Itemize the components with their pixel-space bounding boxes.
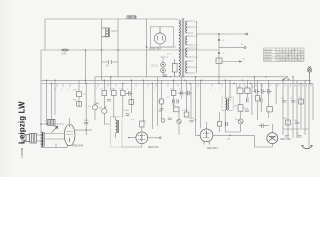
svg-text:4: 4 <box>277 52 278 54</box>
svg-text:1,2: 1,2 <box>301 60 304 62</box>
wire tube4 grid <box>266 125 269 127</box>
capacitor C23 <box>285 136 289 138</box>
svg-text:0,1: 0,1 <box>296 133 300 135</box>
table cell text <box>264 48 304 62</box>
tick row below rails <box>57 84 311 88</box>
transformer T1 primary winding <box>179 20 181 76</box>
ground symbol <box>302 146 313 149</box>
wire speaker links <box>36 135 41 141</box>
wire pot2 down <box>104 114 110 124</box>
resistor R10 <box>237 88 243 94</box>
svg-text:RGN354: RGN354 <box>264 60 271 62</box>
capacitor C30 <box>246 98 248 103</box>
switch S1 <box>216 58 222 64</box>
svg-text:7: 7 <box>196 88 197 90</box>
resistor R9 <box>184 112 189 117</box>
wire rectifier heater drop <box>146 19 148 77</box>
svg-text:15: 15 <box>292 52 294 54</box>
stage3 junction dots <box>181 92 197 120</box>
coil L2 <box>102 28 110 38</box>
wire left column x161.5 <box>161 80 163 117</box>
svg-text:35: 35 <box>277 55 279 57</box>
wire grid drop x85 <box>85 50 87 84</box>
output transformer box <box>30 133 37 143</box>
node stage2 c <box>110 76 112 78</box>
wire mains drop <box>218 34 220 63</box>
wire drop x186.5 <box>186 80 188 112</box>
svg-text:0,5: 0,5 <box>119 89 123 91</box>
labels transformer taps <box>194 21 198 75</box>
wire switch out with arrow <box>222 61 239 63</box>
svg-text:d: d <box>308 88 309 90</box>
wire vertical x101.5 <box>101 19 103 80</box>
svg-text:5000: 5000 <box>124 110 130 112</box>
node B plus <box>218 33 220 35</box>
wire right link <box>283 128 309 130</box>
capacitor C12 row <box>173 99 179 103</box>
svg-text:8: 8 <box>210 88 211 90</box>
pot P3 <box>161 117 165 122</box>
wire drop x55 <box>54 80 56 115</box>
svg-text:b: b <box>243 58 245 61</box>
wire tube4 bottom <box>254 135 272 147</box>
svg-text:RES 164: RES 164 <box>148 145 159 149</box>
svg-text:80-17: 80-17 <box>112 30 119 33</box>
pilot lamp <box>307 66 311 83</box>
wire drop x239.9 <box>239 84 241 105</box>
wire filter links <box>160 57 166 77</box>
capacitor C21 <box>291 101 295 103</box>
wire tube4 top lead <box>271 124 273 133</box>
svg-text:100: 100 <box>73 90 77 92</box>
speaker coil L1 <box>41 132 44 148</box>
node antenna <box>40 123 42 125</box>
resistor R1 <box>77 92 82 97</box>
svg-text:5000: 5000 <box>189 118 195 120</box>
wire drop x225.4 <box>224 80 226 97</box>
svg-text:60: 60 <box>280 60 282 62</box>
rectifier tube V5 RGN354 <box>154 27 165 44</box>
capacitor C32 tube4 grid <box>259 124 267 128</box>
svg-text:95: 95 <box>292 60 294 62</box>
capacitor C8 <box>126 114 130 116</box>
svg-text:35: 35 <box>289 55 291 57</box>
wire drop x157.6 <box>157 77 159 126</box>
wire trimmer leads <box>240 111 242 132</box>
svg-text:0,1: 0,1 <box>100 89 104 91</box>
stage2 resistor R6 <box>129 100 134 105</box>
wire drop x219 lower <box>218 63 220 84</box>
svg-text:a: a <box>44 120 46 122</box>
wire tube3 plate link <box>213 134 254 136</box>
wire drop x219.5b <box>219 112 221 132</box>
table voltages <box>264 48 305 62</box>
resistor R17 <box>160 99 164 104</box>
wire drop x305 <box>304 80 306 135</box>
svg-text:0,1: 0,1 <box>131 119 135 121</box>
node stage4 b <box>254 76 256 78</box>
svg-text:1: 1 <box>96 88 97 90</box>
svg-text:2: 2 <box>262 87 264 89</box>
svg-text:60: 60 <box>301 52 303 54</box>
wire rectifier anode link <box>160 44 176 47</box>
node stage2 b <box>131 80 133 82</box>
resistor R16 above tube2 <box>140 121 144 127</box>
transformer T1 core <box>182 18 184 78</box>
brand Lorenz <box>20 147 24 157</box>
capacitor C31 <box>260 98 262 102</box>
svg-text:mA: mA <box>293 48 297 51</box>
capacitor C22 <box>295 122 299 124</box>
capacitor C26 <box>185 91 192 96</box>
svg-text:REN904: REN904 <box>264 52 271 54</box>
node HT junction <box>85 49 87 51</box>
wire vertical x118 <box>117 19 119 77</box>
svg-text:8: 8 <box>167 57 169 59</box>
node tube2 left <box>128 137 129 138</box>
trimmer C13 <box>177 119 181 123</box>
resistor R20 <box>172 59 177 77</box>
svg-text:5: 5 <box>146 88 147 90</box>
svg-text:4: 4 <box>283 55 284 57</box>
svg-text:+C: +C <box>222 40 225 42</box>
wire drop x230 <box>229 80 231 101</box>
wire B plus line <box>197 33 248 35</box>
svg-text:2: 2 <box>295 52 296 54</box>
svg-text:110: 110 <box>194 57 198 59</box>
trimmer C19 <box>238 119 243 124</box>
svg-text:95: 95 <box>298 55 300 57</box>
wire drop x297 <box>296 80 298 138</box>
wire left vertical upper <box>44 19 46 50</box>
wire drop x276.1 <box>275 84 277 105</box>
resistor R18 <box>256 96 260 101</box>
wire drop x152.3 <box>151 84 153 130</box>
value labels scatter <box>44 54 301 136</box>
capacitor C27 <box>160 109 164 111</box>
wire drop x86.2 <box>85 84 87 136</box>
wire drop x173.6 <box>173 80 175 107</box>
node antenna2 <box>46 123 48 125</box>
tube V4 RES164 <box>267 133 278 144</box>
wire drop x122.8 <box>122 84 124 118</box>
resistor R3 <box>102 91 107 96</box>
svg-text:5000: 5000 <box>84 120 90 122</box>
wire drop x113.8 <box>113 89 115 119</box>
capacitor C29 <box>268 89 272 94</box>
tube V1 REN904 <box>64 124 75 146</box>
svg-text:95: 95 <box>286 60 288 62</box>
svg-text:9: 9 <box>220 88 221 90</box>
node stage2 a <box>104 80 106 82</box>
wire drop x79 <box>78 80 80 107</box>
box rectifier enclosure <box>150 27 173 47</box>
wire drop x293 <box>292 77 294 138</box>
coil L6 <box>225 98 228 110</box>
resistor R5 <box>121 91 126 96</box>
wire drop x301 <box>300 84 302 129</box>
resistor R4 <box>112 91 117 96</box>
svg-text:0,1: 0,1 <box>167 97 171 99</box>
shield box stage2 <box>111 117 123 148</box>
svg-text:2M: 2M <box>227 139 230 141</box>
svg-text:20: 20 <box>235 119 238 121</box>
svg-text:100: 100 <box>283 118 287 120</box>
capacitor C14 <box>190 121 194 123</box>
svg-text:2: 2 <box>283 133 285 135</box>
node mains 53 <box>218 52 220 54</box>
resistor R12 <box>238 105 243 112</box>
svg-text:3: 3 <box>114 88 115 90</box>
svg-text:a: a <box>281 75 283 77</box>
svg-text:c: c <box>288 88 289 90</box>
wire drop x46.5 <box>46 80 48 124</box>
resistor R13 <box>299 99 304 104</box>
coil L5 <box>116 120 119 133</box>
node cathode tick <box>55 143 57 147</box>
node stage3 a <box>173 80 175 82</box>
wire HT line <box>41 49 218 51</box>
capacitor C7 <box>126 91 133 96</box>
node rectifier heater <box>146 46 148 48</box>
svg-text:+C 4: +C 4 <box>167 54 172 56</box>
svg-text:0,5A: 0,5A <box>62 53 67 56</box>
svg-text:2: 2 <box>127 89 129 91</box>
wire drop x131.3 <box>130 80 132 113</box>
wire tube2 top lead <box>141 127 143 132</box>
wire drop x288 <box>287 84 289 136</box>
bus line 1 <box>95 76 288 78</box>
svg-text:4: 4 <box>134 88 135 90</box>
wire drop x261.2 <box>260 84 262 113</box>
capacitor C15 <box>168 118 172 120</box>
svg-text:4: 4 <box>280 55 281 57</box>
wire left vertical lower <box>40 50 42 147</box>
svg-text:95: 95 <box>289 60 291 62</box>
wire tube1 cathode <box>41 146 67 148</box>
wire drop x308.5 <box>308 84 310 148</box>
pot P1 <box>93 103 98 110</box>
svg-text:2: 2 <box>277 60 278 62</box>
svg-text:RES 164: RES 164 <box>281 138 292 141</box>
capacitor C17 <box>262 89 266 94</box>
wire tube1 right <box>75 129 92 131</box>
svg-text:0,1: 0,1 <box>281 98 285 100</box>
svg-text:20: 20 <box>106 65 109 68</box>
node x101 y50 <box>101 49 103 51</box>
arrow mains <box>239 60 243 62</box>
speaker LS <box>22 133 30 144</box>
svg-text:a: a <box>241 43 243 46</box>
bus line 2 <box>41 79 311 81</box>
wire drop x181.3 <box>180 77 182 99</box>
wire drop x200.5 <box>200 80 202 128</box>
title Leipzig LW <box>18 101 27 144</box>
wire tube2 right <box>148 137 160 139</box>
node rail x85 <box>85 80 87 82</box>
svg-text:2M: 2M <box>73 100 76 102</box>
stage2 cap C10 <box>107 100 111 102</box>
arrow grid <box>52 126 58 132</box>
wire drop x104.3 <box>103 80 105 108</box>
tube V2 RES164 <box>136 132 148 144</box>
wire drop x51.5 <box>51 84 53 120</box>
tube V1 pins <box>66 145 68 148</box>
wire tap bus <box>196 21 198 73</box>
wire coil L5 leads <box>115 117 117 139</box>
wire stage4 link <box>225 110 240 132</box>
bus line 3 <box>41 83 313 85</box>
wire drop x283 <box>282 80 284 135</box>
resistor R8 <box>174 107 180 112</box>
svg-text:REN 904: REN 904 <box>207 146 218 150</box>
terminal tube2 right <box>159 137 161 139</box>
node tube1 right <box>86 129 87 130</box>
tube V3 REN904 <box>200 129 213 142</box>
svg-text:a: a <box>68 89 69 91</box>
node x118 y50 <box>117 49 119 51</box>
wire drop x247.4 <box>246 80 248 97</box>
svg-text:+C: +C <box>222 53 225 55</box>
svg-text:35: 35 <box>280 52 282 54</box>
capacitor C18 <box>245 110 249 112</box>
pot P2 <box>102 106 107 113</box>
svg-text:1: 1 <box>179 88 181 90</box>
capacitor C2 <box>102 60 119 64</box>
wire antenna link <box>41 123 64 125</box>
wire tube1 top lead <box>69 118 71 124</box>
svg-text:80: 80 <box>298 60 300 62</box>
capacitor C24 <box>298 136 302 138</box>
svg-text:6: 6 <box>154 88 155 90</box>
electrolytic C41 <box>161 68 166 73</box>
wire drop x191 <box>190 84 192 119</box>
svg-text:80: 80 <box>283 52 285 54</box>
wire top bus <box>45 18 177 20</box>
wire tube2 bottom <box>121 144 142 147</box>
terminal mains b <box>244 46 246 48</box>
transformer T1 secondary windings <box>186 21 187 73</box>
resistor R19 <box>267 107 272 112</box>
svg-text:50: 50 <box>158 101 161 103</box>
svg-text:2M: 2M <box>158 111 161 113</box>
transformer T1 taps <box>187 21 193 73</box>
node stage3 b <box>195 76 197 78</box>
svg-text:50: 50 <box>88 106 91 108</box>
wire drop x195.5 <box>196 77 201 136</box>
shield box stage4 <box>222 97 233 110</box>
tube V3 pins <box>204 141 209 145</box>
capacitor C42 <box>164 75 168 76</box>
svg-text:REN 904: REN 904 <box>73 143 84 147</box>
wire tube2 left <box>128 137 136 139</box>
wire drop x268.7 <box>268 80 270 118</box>
switch S2 <box>283 77 289 81</box>
electrolytic C40 <box>161 62 166 67</box>
wire drop x94.5 <box>94 77 96 120</box>
svg-text:0,2: 0,2 <box>170 88 174 90</box>
wire drop x257.5 <box>257 80 259 120</box>
svg-text:Ubertrag: Ubertrag <box>264 48 271 51</box>
svg-text:100: 100 <box>172 105 176 107</box>
svg-text:35: 35 <box>292 55 294 57</box>
wire trimmer leads <box>178 112 180 135</box>
svg-text:b: b <box>276 88 277 90</box>
terminal mains a <box>246 33 248 35</box>
resistor R7 <box>171 90 176 95</box>
wire drop x251.9 <box>251 84 253 116</box>
capacitor C20 <box>282 101 286 103</box>
wire drop x143.3 <box>142 80 146 121</box>
box right of tube3 <box>217 122 221 127</box>
svg-text:REN904: REN904 <box>264 55 271 57</box>
svg-text:4: 4 <box>55 89 56 91</box>
svg-text:0,2: 0,2 <box>252 87 256 89</box>
svg-text:1M: 1M <box>96 103 99 105</box>
fuse Si on HT line <box>61 49 69 51</box>
wire transformer to top bus <box>176 19 178 20</box>
resistor R2 <box>77 102 82 107</box>
capacitor C5 <box>84 122 88 124</box>
node plate line <box>229 135 231 137</box>
choke L3 on top bus <box>127 16 136 19</box>
svg-text:80: 80 <box>301 55 303 57</box>
wire coil tap2 <box>45 138 65 140</box>
svg-text:1M: 1M <box>234 106 237 108</box>
svg-text:0: 0 <box>194 73 196 75</box>
node mains 40 <box>218 39 220 41</box>
wire mains mid <box>219 46 244 48</box>
capacitor C11 <box>178 91 185 96</box>
grid coil L4 <box>48 119 56 125</box>
label row below rails <box>55 88 309 91</box>
svg-text:+C 1,5: +C 1,5 <box>151 65 159 68</box>
capacitor C16 <box>253 89 260 94</box>
junction dots rails <box>46 76 311 84</box>
wire drop x254.3 <box>253 77 254 92</box>
node stage4 a <box>225 80 227 82</box>
svg-text:2: 2 <box>106 88 107 90</box>
wire drop x313 <box>312 84 314 121</box>
svg-text:RGN 354: RGN 354 <box>149 47 161 51</box>
wire drop x110.8 <box>110 77 112 91</box>
svg-text:0,5: 0,5 <box>182 110 186 112</box>
resistor R14 <box>286 120 291 125</box>
resistor R11 <box>245 88 250 94</box>
capacitor C28 <box>226 122 228 126</box>
svg-text:Lorenz: Lorenz <box>20 147 24 157</box>
svg-text:6: 6 <box>61 89 62 91</box>
wire tube3 top lead <box>206 122 208 129</box>
wire coil tap1 <box>45 133 65 135</box>
